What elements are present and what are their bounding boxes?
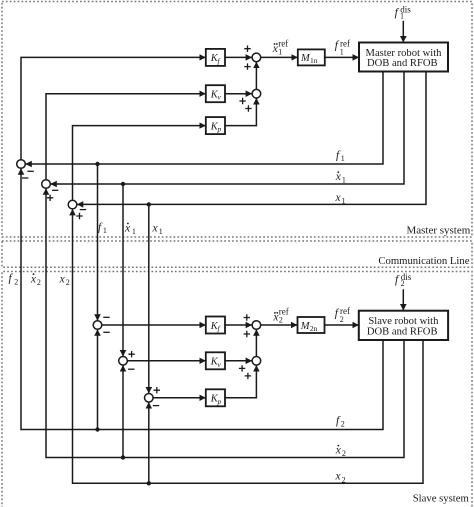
wire: Kf master output into sum MR1	[225, 56, 252, 58]
svg-text:2: 2	[342, 475, 346, 484]
gain block Kp master	[206, 117, 225, 134]
wire: sum SR1 output into M2n	[261, 324, 298, 326]
summing junction SC1	[93, 321, 102, 330]
svg-text:Communication Line: Communication Line	[378, 255, 469, 267]
svg-text:Slave robot with: Slave robot with	[368, 316, 439, 327]
svg-text:2: 2	[14, 277, 18, 286]
wire: x2 branch up into sum SC3	[148, 402, 150, 483]
sign minus MC1 right input	[27, 170, 33, 172]
svg-text:DOB and RFOB: DOB and RFOB	[367, 326, 438, 337]
svg-text:1: 1	[159, 227, 163, 236]
wire: sum MC3 output up and right into Kp master	[73, 126, 206, 201]
svg-text:2: 2	[340, 315, 344, 324]
wire: x1 feedback from master robot down and left into sum MC3	[77, 72, 426, 205]
svg-text:1: 1	[278, 47, 282, 56]
slave system dotted boundary	[2, 272, 472, 507]
wire: sum SC3 output into Kp slave	[153, 397, 206, 399]
sign plus SR1 left input	[244, 314, 250, 320]
sign minus SC1 bottom input	[103, 331, 109, 333]
svg-text:2: 2	[342, 449, 346, 458]
wire: sum MR1 output into M1n	[261, 56, 298, 58]
gain block M1n	[298, 49, 325, 65]
svg-text:2: 2	[341, 420, 345, 429]
wire: M1n output into master robot block	[325, 56, 359, 58]
wire: x1dot branch down through communication line into sum SC2	[122, 184, 124, 357]
svg-text:1: 1	[342, 176, 346, 185]
summing junction MC3	[68, 200, 77, 209]
svg-text:x: x	[152, 223, 159, 235]
svg-text:1: 1	[342, 196, 346, 205]
sign plus SC3 top input	[154, 387, 160, 393]
wire: x1 branch down through communication line into sum SC3	[148, 204, 150, 393]
svg-text:1: 1	[340, 48, 344, 57]
summing junction MC1	[17, 160, 26, 169]
sign minus MC3 right input	[80, 209, 86, 211]
wire: f1dis disturbance arrow into master robot block	[402, 21, 404, 43]
gain block Kv slave	[206, 352, 225, 369]
junction on x1dot feedback line	[121, 182, 125, 186]
svg-text:f: f	[395, 7, 400, 19]
wire: f2dis disturbance arrow into slave robot block	[402, 289, 404, 310]
svg-text:1: 1	[341, 154, 345, 163]
svg-text:2: 2	[401, 279, 405, 288]
svg-text:x: x	[335, 471, 342, 483]
summing junction MC2	[42, 180, 51, 189]
sign plus MR1 bottom input	[244, 63, 250, 69]
sign plus MR2 bottom input	[245, 105, 251, 111]
gain block Kf master	[206, 49, 225, 66]
summing junction SC2	[119, 357, 128, 366]
summing junction MR1	[252, 53, 261, 62]
junction on x2 feedback line	[147, 481, 151, 485]
sign minus SC1 top input	[103, 316, 109, 318]
svg-text:1: 1	[103, 226, 107, 235]
wire: Kp slave output right then up into sum SR2	[225, 365, 256, 398]
summing junction SC3	[145, 394, 154, 403]
svg-text:1: 1	[132, 227, 136, 236]
wire: f2 branch up into sum SC1	[97, 329, 99, 429]
wire: sum SC1 output into Kf slave	[102, 324, 206, 326]
svg-text:p: p	[217, 125, 222, 134]
wire: M2n output into slave robot block	[325, 324, 359, 326]
sign plus MC3 bottom input	[76, 213, 82, 219]
sign plus SC2 top input	[128, 351, 134, 357]
sign minus MC1 bottom input	[22, 177, 28, 179]
svg-text:2: 2	[279, 315, 283, 324]
sign plus MR1 left input	[244, 46, 250, 52]
sign plus SR1 bottom input	[244, 331, 250, 337]
wire: x2 feedback from slave robot down, left and up into sum MC3	[73, 209, 424, 483]
svg-text:x: x	[59, 274, 66, 286]
wire: x1dot feedback from master robot down and left into sum MC2	[50, 72, 404, 185]
block master robot with DOB and RFOB	[359, 43, 448, 72]
block slave robot with DOB and RFOB	[359, 311, 448, 340]
wire: x2dot branch up into sum SC2	[122, 365, 124, 457]
gain block Kf slave	[206, 317, 225, 334]
svg-text:x: x	[30, 274, 37, 286]
svg-text:2n: 2n	[310, 324, 318, 333]
wire: sum SR2 output up into sum SR1	[255, 329, 257, 356]
svg-text:2: 2	[37, 278, 41, 287]
junction on x1 feedback line	[147, 202, 151, 206]
wire: Kp master output right then up into sum MR2	[225, 98, 256, 126]
junction on f2 feedback line	[95, 427, 99, 431]
wire: sum MC2 output up and right into Kv master	[46, 94, 206, 180]
wire: sum MR2 output up into sum MR1	[255, 62, 257, 90]
wire: f2 feedback from slave robot down, left and up into sum MC1	[21, 168, 383, 429]
junction on f1 feedback line	[95, 162, 99, 166]
wire: Kf slave output into sum SR1	[225, 324, 252, 326]
communication line dotted boundary	[2, 241, 472, 267]
svg-text:x: x	[335, 192, 342, 204]
sign minus MC2 right input	[52, 189, 58, 191]
svg-text:Slave system: Slave system	[413, 492, 470, 504]
master system dotted boundary	[2, 2, 472, 238]
sign plus MR2 left input	[239, 98, 245, 104]
svg-text:f: f	[9, 273, 14, 285]
sign plus MC2 bottom input	[47, 195, 53, 201]
wire: x2dot feedback from slave robot down, left and up into sum MC2	[46, 188, 404, 457]
svg-text:Master system: Master system	[406, 224, 470, 236]
svg-text:p: p	[217, 397, 222, 406]
sign plus SR2 left input	[239, 365, 245, 371]
wire: f1 branch down through communication line into sum SC1	[97, 164, 99, 321]
svg-text:1: 1	[400, 12, 404, 21]
gain block Kv master	[206, 85, 225, 102]
svg-text:f: f	[395, 274, 400, 286]
gain block Kp slave	[206, 389, 225, 406]
junction on x2dot feedback line	[121, 455, 125, 459]
sign plus SR2 bottom input	[245, 373, 251, 379]
sign minus SC3 bottom input	[153, 405, 159, 407]
svg-text:1n: 1n	[310, 56, 318, 65]
svg-text:Master robot with: Master robot with	[366, 48, 443, 59]
gain block M2n	[298, 317, 325, 333]
wire: f1 feedback from master robot down and left into sum MC1	[25, 72, 383, 165]
summing junction MR2	[252, 89, 261, 98]
svg-text:x: x	[124, 223, 131, 235]
wire: Kv slave output into sum SR2	[225, 360, 252, 362]
svg-text:DOB and RFOB: DOB and RFOB	[367, 58, 438, 69]
wire: sum MC1 output up and right into Kf master	[21, 57, 206, 159]
sign minus SC2 bottom input	[128, 368, 134, 370]
wire: Kv master output into sum MR2	[225, 93, 252, 95]
summing junction SR1	[252, 321, 261, 330]
svg-text:2: 2	[66, 278, 70, 287]
summing junction SR2	[252, 357, 261, 366]
wire: sum SC2 output into Kv slave	[127, 360, 206, 362]
